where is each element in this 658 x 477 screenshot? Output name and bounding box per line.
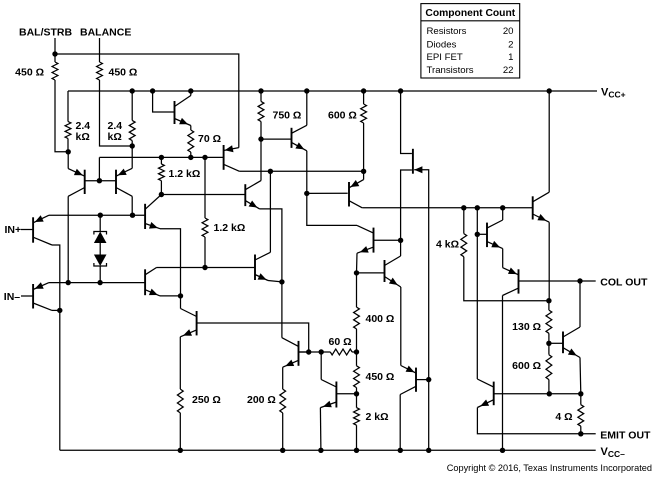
transistor Q6 input: [33, 282, 52, 310]
wire Q3-Q4 base join: [85, 157, 116, 180]
svg-text:EMIT OUT: EMIT OUT: [600, 430, 651, 442]
wire BAL/STRB to strobe transistor: [55, 38, 239, 152]
svg-text:kΩ: kΩ: [108, 131, 122, 143]
transistor Q7: [145, 195, 161, 230]
wire Q_emit base wire: [494, 393, 581, 395]
node 307 junction: [304, 191, 309, 196]
resistor R9 600ohm: [328, 91, 367, 171]
node 400 junction: [398, 238, 403, 243]
resistor R15 250ohm: [177, 337, 220, 451]
wire Q10 collector to R8: [260, 139, 262, 181]
node Q4 collector join: [130, 213, 135, 218]
svg-text:60 Ω: 60 Ω: [329, 336, 352, 348]
wire Q14 base wire: [357, 272, 385, 274]
node D1 top: [98, 213, 103, 218]
wire rail 267: [157, 267, 256, 269]
wire Q15 collector up: [180, 296, 182, 309]
node R7 bottom: [202, 265, 207, 270]
wire Q11 base: [261, 138, 292, 140]
fet J1 channel: [412, 149, 414, 174]
wire Q19 base wire: [477, 233, 487, 235]
node Q1 collector: [188, 88, 193, 93]
transistor Q12: [349, 171, 364, 208]
transistor Q1: [175, 96, 191, 126]
node 4ohm top: [578, 391, 583, 396]
wire COL OUT: [519, 280, 596, 282]
text IN- label: [4, 291, 21, 303]
resistor R5 70ohm: [188, 130, 221, 157]
node Q3 collector join: [66, 280, 71, 285]
wire EMIT OUT: [477, 408, 595, 434]
resistor R8 750ohm: [258, 91, 301, 139]
svg-text:22: 22: [503, 65, 514, 76]
resistor R17 130ohm: [512, 301, 552, 344]
fet J1 gate: [414, 166, 429, 450]
node emitter join 282: [279, 279, 284, 284]
svg-text:BAL/STRB: BAL/STRB: [19, 27, 72, 39]
node R17 top node: [546, 298, 551, 303]
node R9 top: [361, 88, 366, 93]
svg-text:2: 2: [508, 40, 513, 51]
wire IN+ base: [21, 229, 33, 231]
resistor R18 600ohm: [512, 343, 552, 394]
wire Q19 collector up: [502, 208, 504, 220]
wire Q14 collector: [400, 240, 402, 256]
node Q18 base node: [354, 391, 359, 396]
node R14 bottom: [354, 448, 359, 453]
svg-text:750 Ω: 750 Ω: [273, 110, 302, 122]
wire Q9 emitter: [268, 281, 282, 282]
wire Q21 collector up: [548, 91, 550, 192]
node gate line bottom: [426, 448, 431, 453]
transistor Q18: [320, 380, 336, 408]
wire Q7 emitter: [160, 229, 181, 296]
node R6 top: [159, 155, 164, 160]
wire Q1 emitter to R5: [190, 126, 192, 131]
transistor Q16: [282, 338, 299, 368]
svg-text:250 Ω: 250 Ω: [192, 394, 221, 406]
wire rail 282: [49, 282, 145, 284]
transistor Q21: [533, 192, 550, 222]
wire Q22 collector up: [579, 281, 581, 327]
svg-text:450 Ω: 450 Ω: [15, 67, 44, 79]
transistor Q9: [255, 252, 270, 280]
resistor R3 2.4kohm: [65, 120, 90, 152]
wire Q18 base wire: [336, 393, 356, 395]
svg-text:1.2 kΩ: 1.2 kΩ: [214, 222, 246, 234]
wire Q9 collector up: [269, 171, 271, 252]
resistor R7 1.2kohm: [202, 157, 245, 267]
wire 307 L to Q13 collector: [307, 193, 357, 225]
wire Q13 emitter down: [356, 253, 359, 273]
transistor Q10: [245, 181, 261, 209]
node R7 top: [202, 155, 207, 160]
node R16 bottom: [280, 448, 285, 453]
node R10 top: [461, 205, 466, 210]
node input collectors join: [57, 308, 62, 313]
wire Q17 base wire: [416, 379, 429, 381]
node Q17 collector bottom: [398, 448, 403, 453]
resistor R16 200ohm: [247, 367, 286, 450]
svg-text:20: 20: [503, 26, 514, 37]
resistor R1 450ohm: [15, 62, 58, 80]
wire Q4 collector down: [131, 196, 133, 215]
node R8 bottom: [258, 136, 263, 141]
diode D2: [94, 243, 107, 283]
transistor Q19: [487, 220, 503, 249]
resistor R10 4kohm: [436, 208, 549, 301]
wire base rail 193: [307, 192, 348, 194]
transistor Q14: [385, 256, 401, 287]
svg-text:1.2 kΩ: 1.2 kΩ: [169, 168, 201, 180]
wire IN- base: [21, 295, 33, 297]
node 60ohm tap1: [306, 349, 311, 354]
transistor Q15: [180, 309, 196, 337]
transistor Q2: [224, 145, 240, 171]
svg-text:COL OUT: COL OUT: [600, 277, 648, 289]
resistor R4 2.4kohm: [108, 120, 136, 146]
node Q9 collector tap: [268, 169, 273, 174]
transistor Q7b: [477, 379, 493, 408]
svg-text:450 Ω: 450 Ω: [366, 371, 395, 383]
wire Q15 base wire: [197, 323, 309, 352]
svg-text:400 Ω: 400 Ω: [366, 313, 395, 325]
wire base rail 157: [99, 156, 223, 158]
svg-text:4 kΩ: 4 kΩ: [436, 239, 459, 251]
text VCC-: [601, 446, 626, 459]
resistor R6 1.2kohm: [159, 157, 201, 194]
resistor R19 4ohm: [555, 394, 583, 434]
node BAL/STRB junction: [52, 51, 57, 56]
text COL OUT: [600, 277, 648, 289]
wire BALANCE lead: [100, 38, 133, 146]
node Q21 collector rail: [547, 88, 552, 93]
text BALANCE: [80, 27, 131, 39]
svg-text:1: 1: [508, 52, 513, 63]
svg-text:2 kΩ: 2 kΩ: [366, 411, 389, 423]
node R5 bottom: [188, 155, 193, 160]
wire Q16 base wire: [299, 351, 309, 353]
text EMIT OUT: [600, 430, 651, 442]
wire Q11 collector up: [306, 91, 308, 125]
wire input collector down to VCC-: [59, 310, 61, 450]
svg-text:BALANCE: BALANCE: [80, 27, 131, 39]
wire rail 215: [49, 214, 145, 216]
node R15 bottom: [178, 448, 183, 453]
wire rail 194: [161, 194, 245, 196]
node emitter join 296: [178, 293, 183, 298]
diode D1: [94, 215, 107, 243]
node Q19 collector rail: [500, 205, 505, 210]
transistor Q13: [357, 225, 374, 253]
node R4 bottom: [130, 143, 135, 148]
text BAL/STRB: [19, 27, 72, 39]
wire Q3 collector down: [67, 196, 69, 282]
node Q14 base node: [354, 270, 359, 275]
svg-text:Component Count: Component Count: [425, 8, 515, 19]
wire top rail corner to R3: [67, 91, 69, 122]
text copyright: [447, 463, 652, 473]
transistor Q8: [145, 268, 160, 296]
node Q18 emitter bottom: [318, 448, 323, 453]
resistor R11 400ohm: [354, 273, 395, 352]
svg-text:600 Ω: 600 Ω: [512, 360, 541, 372]
text VCC+: [601, 86, 626, 99]
transistor Q4: [116, 146, 132, 196]
wire Q5 collector: [52, 245, 60, 310]
component count table: [421, 4, 520, 78]
node R9 bottom: [361, 169, 366, 174]
svg-text:kΩ: kΩ: [76, 131, 90, 143]
wire Q19 emitter to Q20: [502, 249, 504, 268]
resistor R12 60ohm: [329, 336, 357, 355]
wire Q1 base from top rail: [153, 91, 175, 112]
svg-text:130 Ω: 130 Ω: [512, 321, 541, 333]
node Q11 collector: [304, 88, 309, 93]
node R18 bottom: [547, 391, 552, 396]
svg-text:200 Ω: 200 Ω: [247, 394, 276, 406]
wire Q21 emitter down: [548, 222, 550, 301]
svg-text:4 Ω: 4 Ω: [555, 411, 572, 423]
node 60ohm right: [354, 349, 359, 354]
resistor R13 450ohm: [354, 352, 395, 394]
transistor Q17: [400, 366, 416, 395]
svg-text:Transistors: Transistors: [427, 65, 474, 76]
wire output base rail: [362, 207, 533, 209]
wire R4 top: [131, 91, 133, 120]
node Q1 base rail tap: [150, 88, 155, 93]
svg-text:EPI FET: EPI FET: [427, 52, 463, 63]
node R8 top: [258, 88, 263, 93]
node Q19 base rail tap: [475, 205, 480, 210]
node R3 bottom: [66, 149, 71, 154]
wire Q22 base wire: [549, 342, 563, 344]
svg-text:IN–: IN–: [4, 291, 21, 303]
wire VCC+ top rail: [68, 90, 597, 92]
text IN+ label: [5, 224, 22, 236]
node Q20 collector bottom: [500, 448, 505, 453]
wire Q2 collector rail 171: [239, 170, 363, 172]
svg-text:Copyright © 2016, Texas Instru: Copyright © 2016, Texas Instruments Inco…: [447, 463, 652, 473]
node EMIT OUT junction: [578, 431, 583, 436]
wire J1 drain: [401, 91, 412, 154]
node 60ohm tap2: [319, 349, 324, 354]
svg-text:IN+: IN+: [5, 224, 22, 236]
svg-text:Diodes: Diodes: [427, 40, 457, 51]
wire Q10 emitter down: [260, 209, 282, 338]
node Q3 Q4 base junction: [97, 178, 102, 183]
wire Q1 collector to rail: [190, 91, 192, 96]
node R6 bottom: [159, 192, 164, 197]
resistor R2 450ohm: [97, 62, 138, 80]
node R4 top rail: [130, 88, 135, 93]
wire Q13 base: [374, 239, 401, 241]
svg-text:600 Ω: 600 Ω: [328, 110, 357, 122]
wire Q19 base vertical: [476, 208, 478, 379]
wire Q18 emitter down: [319, 408, 322, 451]
node Q22 base node: [546, 341, 551, 346]
resistor R14 2kohm: [354, 394, 389, 451]
wire Q14 emitter down: [400, 287, 402, 366]
transistor Q20: [503, 268, 519, 296]
transistor Q5 input: [33, 215, 52, 245]
transistor Q3: [68, 152, 85, 197]
node D2 bottom: [97, 280, 102, 285]
wire Q8 emitter: [160, 295, 181, 297]
wire 60ohm left: [299, 351, 331, 353]
svg-text:Resistors: Resistors: [427, 26, 467, 37]
svg-text:450 Ω: 450 Ω: [109, 67, 138, 79]
node Q19 base node: [475, 232, 480, 237]
fet J1 source: [401, 170, 412, 240]
wire Q17 collector down: [399, 395, 401, 451]
node gate line tap: [426, 377, 431, 382]
wire VCC- bottom rail: [60, 449, 596, 451]
wire Q22 emitter down: [579, 358, 582, 394]
transistor Q11: [292, 125, 307, 151]
wire Q11 emitter down: [306, 151, 308, 194]
wire Q20 collector to VCC-: [502, 296, 504, 451]
node COL OUT junction: [577, 278, 582, 283]
transistor Q22: [563, 327, 580, 358]
wire Q6 collector: [52, 309, 60, 311]
wire Q18 collector from 60ohm: [320, 352, 322, 380]
node J1 drain rail: [398, 88, 403, 93]
svg-text:70 Ω: 70 Ω: [198, 133, 221, 145]
